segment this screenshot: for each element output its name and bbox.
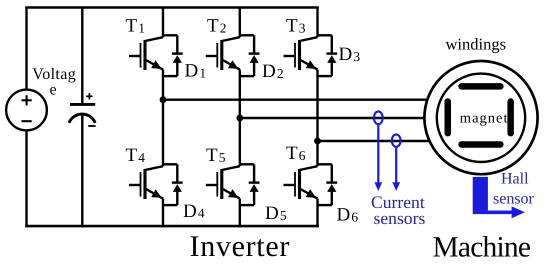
svg-text:T6: T6 xyxy=(286,143,306,164)
transistor T4 xyxy=(129,100,163,227)
svg-text:T3: T3 xyxy=(286,16,306,37)
voltage source - sign xyxy=(22,120,32,122)
node C junction dot xyxy=(314,138,321,145)
svg-text:T1: T1 xyxy=(126,16,146,37)
svg-text:Machine: Machine xyxy=(433,231,531,263)
node B junction dot xyxy=(236,115,243,122)
svg-text:T2: T2 xyxy=(207,16,227,37)
magnet bar top xyxy=(458,83,503,90)
svg-text:e: e xyxy=(50,82,58,99)
voltage source circle xyxy=(6,90,47,131)
current sensor arrow 1 xyxy=(374,124,382,191)
transistor T1 xyxy=(129,7,163,100)
current sensor arrow 2 xyxy=(392,146,400,191)
wire: phase B xyxy=(240,117,425,119)
wire: capacitor bottom lead xyxy=(81,115,83,228)
diode D1 xyxy=(163,35,183,76)
capacitor + sign xyxy=(86,93,92,99)
wire: capacitor top lead xyxy=(81,7,83,105)
top DC bus wire xyxy=(25,6,319,9)
svg-text:sensors: sensors xyxy=(374,208,426,228)
wire: source bottom lead xyxy=(25,130,27,227)
svg-text:T5: T5 xyxy=(206,145,226,166)
svg-text:magnet: magnet xyxy=(460,111,509,127)
transistor T3 xyxy=(284,7,318,142)
wire: source top lead xyxy=(25,7,27,90)
svg-text:D6: D6 xyxy=(337,205,359,226)
svg-text:Inverter: Inverter xyxy=(190,230,291,263)
transistor T2 xyxy=(206,7,240,119)
machine rotor inner circle xyxy=(437,74,525,162)
magnet bar right xyxy=(507,98,514,136)
wire: phase A xyxy=(163,98,428,100)
capacitor C top plate xyxy=(70,103,95,106)
diode D6 xyxy=(318,164,338,205)
diode D4 xyxy=(163,164,183,205)
svg-text:T4: T4 xyxy=(126,145,146,166)
svg-text:windings: windings xyxy=(446,35,507,54)
magnet bar left xyxy=(445,98,452,136)
diode D5 xyxy=(240,164,260,205)
node A junction dot xyxy=(160,96,167,103)
current sensor loop 2 xyxy=(392,134,401,146)
transistor T5 xyxy=(206,118,240,227)
diode D3 xyxy=(318,35,338,76)
svg-text:D2: D2 xyxy=(262,61,284,82)
svg-text:D5: D5 xyxy=(265,203,287,224)
wire: phase C xyxy=(318,140,430,142)
transistor T6 xyxy=(284,141,318,227)
voltage source + sign xyxy=(22,95,32,105)
svg-text:D4: D4 xyxy=(183,201,205,222)
current sensor loop 1 xyxy=(374,111,383,124)
magnet bar bottom xyxy=(458,141,503,148)
diode D2 xyxy=(240,35,260,76)
capacitor - sign xyxy=(88,125,95,127)
svg-text:D1: D1 xyxy=(185,61,207,82)
hall sensor bar xyxy=(473,177,488,214)
svg-text:sensor: sensor xyxy=(493,191,535,208)
hall sensor arrow xyxy=(487,206,525,218)
machine stator outer circle xyxy=(424,61,537,174)
svg-text:Hall: Hall xyxy=(501,171,529,188)
bottom DC bus wire xyxy=(25,225,319,228)
capacitor C bottom plate (curved) xyxy=(69,114,95,123)
svg-text:D3: D3 xyxy=(339,44,361,65)
